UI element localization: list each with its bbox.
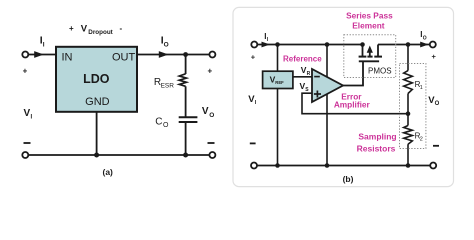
- wire GND drop (a): [96, 112, 98, 155]
- wire output rail (b): [378, 44, 430, 46]
- wire R1 to R2 (b): [407, 94, 409, 126]
- svg-text:Amplifier: Amplifier: [334, 100, 371, 110]
- junction node source (b): [360, 42, 365, 47]
- reference box VREF: [263, 71, 293, 88]
- svg-text:Resistors: Resistors: [357, 143, 396, 153]
- wire to R1 (b): [407, 45, 409, 71]
- svg-text:R: R: [307, 71, 311, 77]
- svg-text:-: -: [120, 24, 123, 33]
- plus input mark: [314, 93, 321, 95]
- svg-text:S: S: [305, 87, 309, 93]
- wire input (a): [29, 54, 56, 56]
- current arrow II (b): [262, 42, 271, 48]
- svg-text:Reference: Reference: [283, 54, 322, 63]
- svg-text:+: +: [69, 24, 74, 33]
- svg-text:I: I: [255, 100, 257, 106]
- junction node amp supply (b): [325, 42, 330, 47]
- junction node reference supply (b): [275, 42, 280, 47]
- terminal output top (b): [430, 42, 436, 48]
- junction node GND rail (a): [94, 153, 99, 158]
- capacitor CO: [179, 116, 198, 118]
- current arrow IO (b): [420, 42, 429, 48]
- wire VS feedback (b): [302, 93, 408, 114]
- terminal input bottom (a): [22, 152, 28, 158]
- resistor R2: [404, 126, 413, 145]
- svg-text:Sampling: Sampling: [358, 131, 396, 141]
- minus sign right (a): [208, 142, 215, 144]
- svg-text:IN: IN: [62, 52, 73, 64]
- svg-text:O: O: [435, 101, 440, 107]
- current arrow II (a): [34, 51, 44, 58]
- svg-text:REF: REF: [275, 80, 284, 85]
- transistor Q1 PMOS gate bar: [359, 60, 379, 62]
- wire VR (b): [293, 76, 312, 78]
- dashed box sampling resistors: [400, 64, 426, 149]
- svg-text:I: I: [267, 37, 269, 43]
- ground rail (b): [257, 165, 430, 167]
- junction node CO rail (a): [183, 153, 188, 158]
- terminal input bottom (b): [251, 163, 257, 169]
- minus sign left (a): [24, 142, 31, 144]
- junction node R2 rail (b): [406, 163, 411, 168]
- svg-text:I: I: [31, 115, 33, 121]
- reference supply wire (b): [277, 45, 279, 166]
- svg-text:+: +: [207, 67, 212, 76]
- svg-text:GND: GND: [85, 96, 110, 108]
- minus input mark: [314, 76, 320, 78]
- amplifier supply wire (b): [326, 45, 328, 166]
- svg-text:LDO: LDO: [83, 72, 110, 86]
- svg-text:Element: Element: [352, 21, 385, 31]
- current arrow IO (a): [159, 51, 169, 58]
- PMOS contact bars: [359, 56, 367, 58]
- PMOS body arrow: [369, 51, 371, 57]
- op-amp error amplifier: [312, 69, 343, 102]
- svg-text:V: V: [202, 106, 209, 117]
- svg-text:O: O: [164, 41, 169, 48]
- svg-text:2: 2: [420, 136, 423, 142]
- svg-text:OUT: OUT: [112, 52, 136, 64]
- svg-text:(b): (b): [343, 174, 354, 184]
- junction node top (a): [183, 52, 188, 57]
- frame border (b): [233, 7, 454, 186]
- minus sign right (b): [433, 145, 439, 147]
- svg-text:O: O: [423, 35, 427, 41]
- ground rail (a): [29, 154, 210, 156]
- wire output (a): [137, 54, 209, 56]
- wire input rail (b): [257, 44, 363, 46]
- svg-text:ESR: ESR: [161, 82, 175, 89]
- wire capacitor to rail (a): [185, 122, 187, 155]
- wire amp output to gate (b): [343, 61, 363, 85]
- svg-text:V: V: [24, 108, 31, 119]
- wire R2 to rail (b): [407, 144, 409, 165]
- terminal input top (b): [251, 42, 257, 48]
- junction node R branch top (b): [406, 42, 411, 47]
- junction node reference rail (b): [275, 163, 280, 168]
- PMOS source stub: [362, 45, 364, 57]
- svg-text:I: I: [43, 41, 45, 48]
- svg-text:O: O: [163, 122, 169, 129]
- svg-text:C: C: [155, 117, 162, 128]
- terminal output bottom (b): [430, 163, 436, 169]
- svg-text:V: V: [81, 24, 88, 35]
- svg-text:(a): (a): [103, 167, 114, 177]
- PMOS drain stub: [377, 45, 379, 57]
- svg-text:Dropout: Dropout: [88, 29, 113, 36]
- svg-text:PMOS: PMOS: [368, 67, 392, 76]
- svg-text:1: 1: [420, 85, 423, 91]
- svg-text:+: +: [251, 52, 256, 61]
- svg-text:Series Pass: Series Pass: [346, 11, 393, 21]
- svg-text:+: +: [23, 66, 28, 75]
- svg-text:+: +: [432, 52, 437, 61]
- junction node feedback (b): [406, 111, 411, 116]
- terminal output bottom (a): [209, 152, 215, 158]
- resistor R1: [404, 71, 413, 94]
- wire to resistor (a): [185, 55, 187, 75]
- terminal output top (a): [209, 52, 215, 58]
- LDO box U1: [56, 47, 137, 112]
- resistor RESR: [179, 74, 186, 87]
- terminal input top (a): [22, 52, 28, 58]
- svg-text:O: O: [209, 112, 214, 119]
- minus sign left (b): [250, 142, 256, 144]
- junction node amp rail (b): [325, 163, 330, 168]
- dashed box series pass element: [344, 35, 396, 78]
- wire resistor to capacitor (a): [185, 86, 187, 117]
